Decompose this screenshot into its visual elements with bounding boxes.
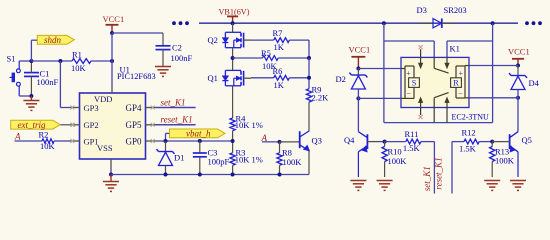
wire (D2 to Q4) bbox=[357, 89, 359, 132]
port ext_trig bbox=[11, 120, 75, 130]
svg-text:set_K1: set_K1 bbox=[422, 166, 432, 191]
svg-text:100K: 100K bbox=[388, 156, 408, 166]
resistor R1 bbox=[71, 50, 91, 73]
node: R3 bottom bbox=[231, 173, 235, 177]
svg-text:10K: 10K bbox=[71, 63, 87, 73]
wire (R1 to VDD) bbox=[91, 60, 112, 62]
ground (S1/C1) bbox=[23, 96, 39, 110]
svg-text:set_K1: set_K1 bbox=[161, 97, 186, 107]
relay K1 body bbox=[401, 44, 489, 122]
svg-text:−: − bbox=[458, 89, 463, 98]
svg-text:R2: R2 bbox=[39, 129, 49, 139]
wire (A to R2) bbox=[15, 140, 43, 142]
node: VB1 junction bbox=[231, 21, 235, 25]
wire (R coil +) bbox=[469, 65, 518, 67]
wire bottom rail bbox=[111, 174, 309, 176]
svg-text:VCC1: VCC1 bbox=[508, 46, 530, 56]
port vbat_h bbox=[166, 129, 226, 141]
relay coil S bbox=[401, 66, 419, 98]
svg-text:R6: R6 bbox=[273, 66, 283, 76]
svg-text:1.5K: 1.5K bbox=[403, 143, 421, 153]
wire (bus to Q2) bbox=[232, 23, 234, 32]
svg-text:1.5K: 1.5K bbox=[459, 144, 477, 154]
svg-text:100K: 100K bbox=[495, 155, 515, 165]
svg-text:GP4: GP4 bbox=[125, 103, 142, 113]
svg-text:EC2-3TNU: EC2-3TNU bbox=[452, 112, 490, 121]
wire (D4 to Q5) bbox=[517, 90, 519, 132]
node: Q2/Q1 junction bbox=[231, 56, 235, 60]
node: C3 top junction bbox=[198, 139, 202, 143]
resistor R6 bbox=[273, 66, 290, 90]
node: VDD junction R1 bbox=[110, 59, 114, 63]
wire (R2 to GP1) bbox=[54, 140, 70, 142]
wire (S coil -) bbox=[358, 97, 401, 99]
pin GP3 bbox=[70, 103, 99, 113]
pin VDD bbox=[94, 86, 112, 104]
node: bus junction right (K1) bbox=[491, 21, 495, 25]
wire (to R11) bbox=[385, 141, 406, 143]
pin GP0 bbox=[125, 136, 155, 146]
power VCC1 (right) bbox=[508, 46, 530, 65]
net label set_K1 bbox=[161, 97, 186, 107]
svg-text:D4: D4 bbox=[529, 78, 540, 88]
net label set_K1 (rotated) bbox=[422, 166, 432, 191]
diode D1 bbox=[157, 141, 185, 175]
wire reset_K1 bbox=[155, 124, 196, 126]
svg-text:D3: D3 bbox=[417, 5, 427, 15]
ground (C2) bbox=[155, 67, 171, 77]
node: R6 column junction bbox=[307, 76, 311, 80]
diode D4 bbox=[509, 66, 540, 90]
wire (R3 to rail) bbox=[232, 165, 234, 174]
node: D2 top junction bbox=[356, 67, 360, 71]
node: R13 junction bbox=[490, 140, 494, 144]
svg-text:10K 1%: 10K 1% bbox=[235, 120, 263, 130]
svg-text:PIC12F683: PIC12F683 bbox=[117, 72, 156, 81]
wire (Q3 emitter) bbox=[308, 151, 310, 175]
resistor R7 bbox=[273, 28, 290, 52]
svg-text:VCC1: VCC1 bbox=[349, 44, 371, 54]
ground (VSS) bbox=[103, 175, 119, 192]
svg-text:D1: D1 bbox=[174, 152, 184, 162]
node: R5 column junction bbox=[307, 56, 311, 60]
wire set_K1 (vertical) bbox=[421, 142, 434, 194]
node: D1/vbat junction bbox=[164, 139, 168, 143]
relay contact bottom bbox=[419, 93, 449, 123]
wire (VSS to ground rail) bbox=[110, 170, 112, 175]
svg-text:+: + bbox=[458, 69, 463, 78]
switch S1 bbox=[7, 54, 21, 97]
node: bus junction left (K1) bbox=[382, 21, 386, 25]
svg-text:K1: K1 bbox=[450, 44, 460, 54]
node: D4 bottom junction bbox=[516, 96, 520, 100]
ground (R10) bbox=[377, 181, 393, 191]
resistor R8 bbox=[277, 142, 302, 175]
node: R4/R3/GP0 junction bbox=[231, 139, 235, 143]
power VCC1 (MCU supply) bbox=[103, 14, 125, 33]
node: ellipsis right bbox=[525, 21, 542, 25]
node: D4 top junction bbox=[516, 64, 520, 68]
svg-text:reset_K1: reset_K1 bbox=[161, 114, 193, 124]
resistor R13 bbox=[490, 142, 515, 177]
svg-text:R5: R5 bbox=[261, 48, 271, 58]
svg-text:1K: 1K bbox=[274, 42, 285, 52]
pin GP1 bbox=[70, 136, 99, 146]
svg-text:100pF: 100pF bbox=[208, 156, 230, 166]
node: VCC1 junction bbox=[110, 31, 114, 35]
svg-text:Q1: Q1 bbox=[208, 73, 218, 83]
wire (A to Q3 base) bbox=[262, 142, 280, 143]
svg-text:VSS: VSS bbox=[97, 143, 113, 153]
wire (R coil -) bbox=[469, 97, 518, 99]
resistor R10 bbox=[382, 142, 407, 177]
wire (Q1 gate to R6) bbox=[251, 77, 274, 79]
node: S1/C1 top junction bbox=[29, 59, 33, 63]
svg-text:−: − bbox=[406, 89, 411, 98]
svg-text:S: S bbox=[412, 78, 417, 88]
svg-text:A: A bbox=[14, 132, 21, 142]
svg-text:R12: R12 bbox=[462, 127, 476, 137]
resistor R9 bbox=[306, 84, 329, 102]
diode D3 bbox=[417, 5, 467, 28]
svg-text:R: R bbox=[453, 78, 459, 88]
wire (net shdn to R1) bbox=[31, 60, 72, 62]
svg-text:vbat_h: vbat_h bbox=[186, 129, 211, 139]
node: ellipsis left bbox=[172, 21, 189, 25]
svg-text:SR203: SR203 bbox=[444, 5, 467, 15]
wire K1 outer frame bbox=[384, 23, 493, 122]
net label reset_K1 bbox=[161, 114, 193, 124]
power VCC1 (left) bbox=[349, 44, 371, 68]
relay contact top bbox=[419, 45, 449, 73]
ground (R13) bbox=[484, 181, 500, 191]
wire (Q5 emitter) bbox=[517, 152, 519, 177]
svg-text:100nF: 100nF bbox=[37, 77, 59, 87]
svg-text:Q4: Q4 bbox=[344, 135, 355, 145]
resistor R11 bbox=[403, 129, 421, 153]
pin VSS bbox=[97, 143, 113, 170]
wire (Q2 to Q1) bbox=[232, 48, 234, 71]
pin GP5 bbox=[125, 120, 155, 130]
node: S1/C1 bottom junction bbox=[29, 94, 33, 98]
node: VSS junction bbox=[109, 173, 113, 177]
wire (VCC1 to C2) bbox=[112, 33, 163, 46]
wire (Q2 gate to R7) bbox=[251, 39, 274, 41]
resistor R12 bbox=[459, 127, 479, 153]
wire bbox=[19, 61, 31, 96]
wire set_K1 bbox=[155, 107, 196, 109]
svg-text:GP2: GP2 bbox=[84, 120, 99, 130]
net label reset_K1 (rotated) bbox=[434, 157, 444, 189]
transistor Q1 bbox=[208, 70, 252, 85]
transistor Q4 bbox=[344, 132, 378, 152]
svg-text:reset_K1: reset_K1 bbox=[434, 157, 444, 189]
op-amp U1 (MCU PIC12F683 body) bbox=[80, 65, 156, 160]
svg-text:C2: C2 bbox=[172, 43, 182, 53]
resistor R5 bbox=[261, 48, 278, 71]
svg-text:2.2K: 2.2K bbox=[312, 93, 330, 103]
wire (R12 to Q5 base) bbox=[479, 141, 492, 143]
wire (R5 to column) bbox=[278, 57, 309, 59]
port shdn bbox=[31, 35, 74, 61]
capacitor C1 bbox=[24, 61, 59, 96]
capacitor C3 bbox=[193, 141, 230, 175]
svg-text:Q2: Q2 bbox=[208, 35, 218, 45]
svg-text:R7: R7 bbox=[273, 28, 283, 38]
wire (Q4 emitter) bbox=[357, 152, 359, 177]
wire (VCC1 down to VDD pin) bbox=[111, 33, 113, 86]
svg-text:Q5: Q5 bbox=[522, 135, 532, 145]
resistor R4 bbox=[230, 113, 263, 130]
svg-text:1K: 1K bbox=[274, 80, 285, 90]
wire (S coil +) bbox=[358, 68, 401, 70]
wire (Q1 source down) bbox=[232, 86, 234, 118]
svg-text:Q3: Q3 bbox=[312, 136, 322, 146]
node: GP3 branch junction bbox=[58, 59, 62, 63]
node: C3 bottom bbox=[198, 173, 202, 177]
svg-text:100nF: 100nF bbox=[171, 53, 193, 63]
power VB1(6V) bbox=[219, 8, 250, 24]
transistor Q5 bbox=[492, 132, 532, 152]
svg-text:GP5: GP5 bbox=[125, 120, 142, 130]
ground (Q4) bbox=[350, 181, 366, 191]
node: D1 bottom bbox=[164, 173, 168, 177]
node: R8 bottom bbox=[278, 173, 282, 177]
relay coil R bbox=[451, 66, 469, 99]
svg-text:GP3: GP3 bbox=[84, 103, 99, 113]
resistor R3 bbox=[230, 147, 263, 165]
svg-text:R11: R11 bbox=[405, 129, 419, 139]
wire (R9 to Q3 collector) bbox=[308, 102, 310, 131]
wire VB1 bus bbox=[199, 22, 518, 24]
svg-text:D2: D2 bbox=[336, 74, 346, 84]
resistor R2 bbox=[39, 129, 56, 151]
svg-text:VCC1: VCC1 bbox=[103, 14, 125, 24]
wire GP0 net bbox=[155, 140, 233, 142]
pin GP2 bbox=[70, 120, 99, 130]
svg-text:VB1(6V): VB1(6V) bbox=[219, 8, 250, 17]
svg-text:S1: S1 bbox=[7, 54, 16, 64]
transistor Q2 bbox=[208, 32, 252, 47]
wire (R4 to R3) bbox=[232, 131, 234, 153]
node A (left) bbox=[14, 132, 21, 142]
svg-text:shdn: shdn bbox=[44, 35, 62, 45]
wire (R6 to column) bbox=[289, 58, 309, 89]
capacitor C2 bbox=[156, 43, 193, 67]
wire (R7 to column) bbox=[289, 40, 309, 58]
wire (to GP3) bbox=[60, 61, 70, 108]
wire (Q4 base) bbox=[378, 141, 385, 143]
node: D2 bottom junction bbox=[356, 96, 360, 100]
ground (Q5) bbox=[510, 181, 526, 191]
svg-text:100K: 100K bbox=[283, 157, 303, 167]
svg-text:10K 1%: 10K 1% bbox=[235, 154, 263, 164]
diode D2 bbox=[336, 69, 368, 90]
pin GP4 bbox=[125, 103, 155, 113]
node A (Q3 base) bbox=[261, 133, 268, 143]
svg-text:+: + bbox=[406, 69, 411, 78]
transistor Q3 bbox=[280, 131, 322, 151]
svg-text:10K: 10K bbox=[40, 141, 56, 151]
node: R8 junction bbox=[278, 140, 282, 144]
svg-text:R1: R1 bbox=[72, 50, 82, 60]
wire reset_K1 (vertical) bbox=[452, 142, 464, 194]
svg-text:GP0: GP0 bbox=[125, 136, 142, 146]
node: R10 junction bbox=[383, 140, 387, 144]
wire (R5 junction) bbox=[233, 57, 263, 59]
